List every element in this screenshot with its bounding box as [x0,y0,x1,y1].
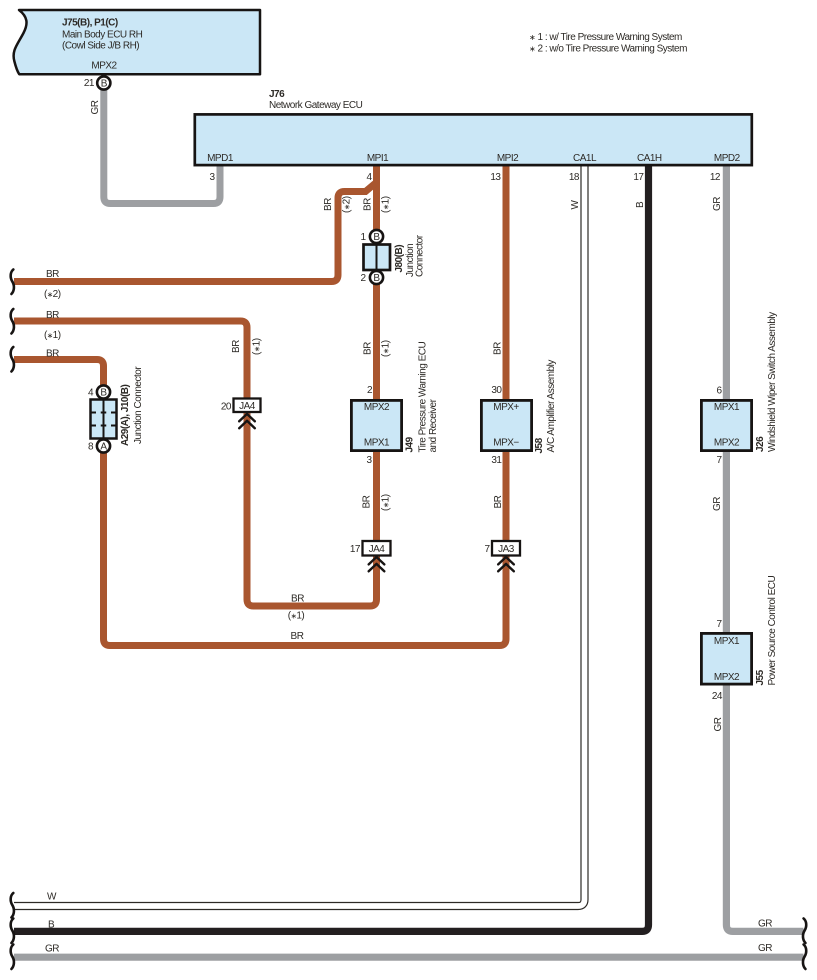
svg-text:(∗2): (∗2) [44,289,61,300]
chevrons JA4-17 [369,557,385,571]
svg-text:Network Gateway ECU: Network Gateway ECU [269,100,363,111]
svg-text:2: 2 [360,273,366,284]
svg-text:MPD2: MPD2 [714,153,741,164]
svg-text:12: 12 [710,172,721,183]
svg-text:MPX1: MPX1 [714,402,740,413]
svg-text:MPI2: MPI2 [497,153,519,164]
wire BR branch (*2): from MPI1 riser to left torn end [14,184,375,282]
svg-text:7: 7 [716,619,722,630]
svg-text:GR: GR [712,497,723,511]
svg-text:Power Source Control ECU: Power Source Control ECU [767,576,778,686]
pin 21 circle B of J75 [97,76,110,89]
svg-text:MPX2: MPX2 [91,61,117,72]
wire BR net: J76 MPI2 pin13 to J58 MPX+ [503,166,510,452]
svg-text:BR: BR [291,594,304,605]
svg-text:J75(B), P1(C): J75(B), P1(C) [62,18,118,29]
component J26 Windshield Wiper Switch Assembly box [701,400,751,450]
svg-text:B: B [101,78,108,89]
svg-text:8: 8 [88,442,94,453]
svg-text:MPX1: MPX1 [714,636,740,647]
svg-text:GR: GR [758,943,772,954]
wire BR net: J76 MPI1 pin4 down through J80, J49, JA4-17, bottom run to JA4-20 riser and left torn end (*1) [14,166,377,606]
svg-text:(Cowl Side J/B RH): (Cowl Side J/B RH) [62,41,139,52]
svg-text:(∗2): (∗2) [342,196,353,213]
svg-text:BR: BR [493,495,504,508]
svg-text:(∗1): (∗1) [381,196,392,213]
svg-text:GR: GR [713,717,724,731]
svg-text:17: 17 [633,172,644,183]
svg-text:13: 13 [490,172,501,183]
component J76 Network Gateway ECU box [195,114,752,165]
torn end squiggle GR right J55 run [803,919,806,944]
svg-text:J55: J55 [755,669,766,685]
svg-text:B: B [635,201,646,208]
svg-text:A/C Amplifier Assembly: A/C Amplifier Assembly [546,360,557,453]
junction connector J80(B) pin 2 circle B [370,271,383,284]
svg-text:B: B [48,919,55,930]
svg-text:Windshield Wiper Switch Assemb: Windshield Wiper Switch Assembly [767,312,778,452]
svg-text:GR: GR [712,197,723,211]
chevrons JA4-20 [239,414,255,428]
svg-text:BR: BR [291,631,304,642]
svg-text:3: 3 [209,172,215,183]
junction connector A29(A),J10(B) pin 4 circle B [97,385,110,398]
svg-text:30: 30 [491,385,502,396]
svg-text:MPX1: MPX1 [364,438,390,449]
svg-text:BR: BR [46,269,59,280]
junction connector A29(A),J10(B) body [91,400,117,439]
torn end squiggle GR bottom left [11,945,14,970]
svg-text:W: W [47,892,57,903]
torn end squiggle BR *1 [11,309,14,334]
svg-text:17: 17 [350,544,361,555]
torn end squiggle B [11,919,14,944]
junction connector A29(A),J10(B) pin 8 circle A [97,439,110,452]
svg-text:2: 2 [367,385,373,396]
svg-text:W: W [570,200,581,210]
svg-text:3: 3 [366,455,372,466]
svg-text:BR: BR [362,495,373,508]
svg-text:and Receiver: and Receiver [428,398,439,452]
svg-text:JA4: JA4 [239,401,256,412]
svg-text:MPD1: MPD1 [207,153,234,164]
svg-text:J49: J49 [405,436,416,452]
svg-text:GR: GR [45,944,59,955]
svg-text:24: 24 [712,691,723,702]
svg-text:6: 6 [716,386,722,397]
svg-text:4: 4 [366,172,372,183]
svg-text:CA1L: CA1L [573,153,597,164]
svg-text:BR: BR [363,342,374,355]
svg-text:BR: BR [323,198,334,211]
svg-text:MPI1: MPI1 [367,153,389,164]
svg-text:(∗1): (∗1) [252,338,263,355]
svg-text:BR: BR [363,198,374,211]
svg-text:Tire Pressure Warning ECU: Tire Pressure Warning ECU [418,342,429,453]
svg-text:Main Body ECU RH: Main Body ECU RH [62,30,143,41]
svg-text:21: 21 [84,78,95,89]
svg-text:BR: BR [46,349,59,360]
torn end squiggle BR [11,347,14,372]
svg-text:1: 1 [360,232,366,243]
svg-text:A: A [100,442,107,453]
svg-text:(∗1): (∗1) [288,611,305,622]
component J55 Power Source Control ECU box [701,633,751,684]
svg-text:BR: BR [231,340,242,353]
torn end squiggle BR *2 [11,270,14,295]
connector JA4 pin 20 [234,399,261,413]
svg-text:4: 4 [88,388,94,399]
svg-text:CA1H: CA1H [637,153,662,164]
junction connector J80(B) pin 1 circle B [370,230,383,243]
svg-text:MPX−: MPX− [493,438,519,449]
svg-text:18: 18 [569,172,580,183]
svg-text:JA3: JA3 [498,544,515,555]
svg-text:7: 7 [484,544,490,555]
component J75(B),P1(C) Main Body ECU RH box [14,10,260,74]
wire GR net: J75 MPX2 pin21 to J76 MPD1 pin3 [104,89,220,204]
svg-text:B: B [100,388,107,399]
svg-text:B: B [373,232,380,243]
svg-text:GR: GR [758,919,772,930]
svg-text:JA4: JA4 [369,544,386,555]
wire BR net: left torn end through A29 junction, bottom run to JA3-7 riser and J58 MPX- [14,360,506,646]
component J58 A/C Amplifier Assembly box [481,400,531,450]
svg-text:Junction Connector: Junction Connector [133,366,144,444]
svg-text:7: 7 [716,455,722,466]
wire B net: J76 CA1H pin17 down and left to torn end [14,166,649,931]
wire GR net: bottom full-width pass-through [14,954,804,961]
svg-text:20: 20 [221,402,232,413]
svg-text:MPX2: MPX2 [714,438,740,449]
svg-text:A29(A), J10(B): A29(A), J10(B) [120,384,131,446]
svg-text:BR: BR [493,342,504,355]
junction connector J80(B) body [364,245,391,271]
torn end squiggle W [11,893,14,918]
svg-text:(∗1): (∗1) [381,340,392,357]
wire W net outline: J76 CA1L pin18 down and left to torn end [14,166,585,906]
svg-text:Connector: Connector [415,234,426,277]
svg-text:MPX2: MPX2 [364,402,390,413]
svg-text:J58: J58 [534,437,545,453]
svg-text:31: 31 [491,455,502,466]
wire GR net: J76 MPD2 pin12 through J26, J55, down and right to torn end [726,166,803,931]
svg-text:J26: J26 [755,436,766,452]
svg-text:∗ 1 : w/ Tire Pressure Warning: ∗ 1 : w/ Tire Pressure Warning System [529,32,682,43]
svg-text:B: B [373,273,380,284]
svg-text:J76: J76 [269,89,285,100]
svg-text:∗ 2 : w/o Tire Pressure Warnin: ∗ 2 : w/o Tire Pressure Warning System [529,44,687,55]
svg-text:MPX+: MPX+ [493,402,519,413]
svg-text:MPX2: MPX2 [714,672,740,683]
connector JA3 pin 7 [492,541,520,556]
svg-text:BR: BR [46,310,59,321]
svg-text:J80(B): J80(B) [394,245,405,273]
chevrons JA3-7 [498,557,514,571]
wire W net white core [14,166,585,906]
svg-text:(∗1): (∗1) [381,494,392,511]
torn end squiggle GR bottom right [803,945,806,970]
svg-text:GR: GR [90,100,101,114]
component J49 Tire Pressure Warning ECU box [351,400,401,450]
connector JA4 pin 17 [363,541,391,556]
svg-text:(∗1): (∗1) [44,330,61,341]
